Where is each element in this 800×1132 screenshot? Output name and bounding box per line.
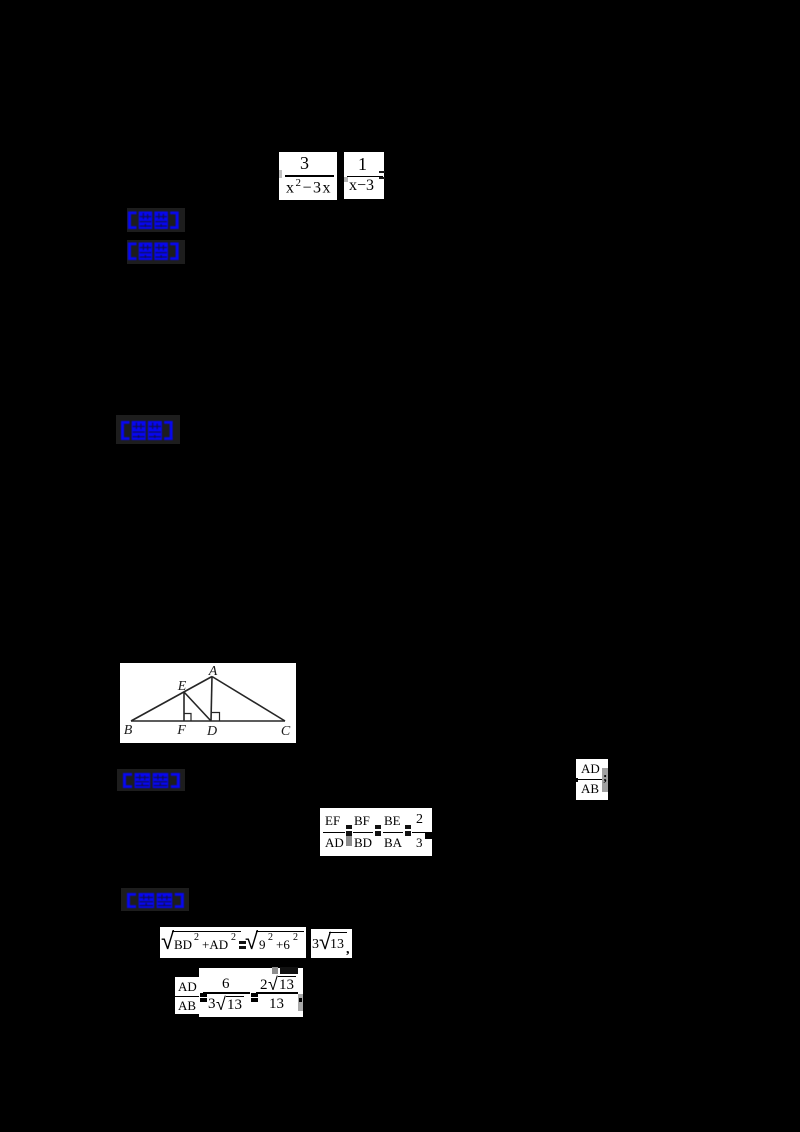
- svg-text:E: E: [177, 679, 187, 694]
- svg-text:F: F: [176, 723, 186, 738]
- svg-text:A: A: [208, 664, 218, 679]
- svg-text:D: D: [206, 724, 217, 739]
- svg-text:B: B: [124, 723, 133, 738]
- svg-text:C: C: [281, 724, 291, 739]
